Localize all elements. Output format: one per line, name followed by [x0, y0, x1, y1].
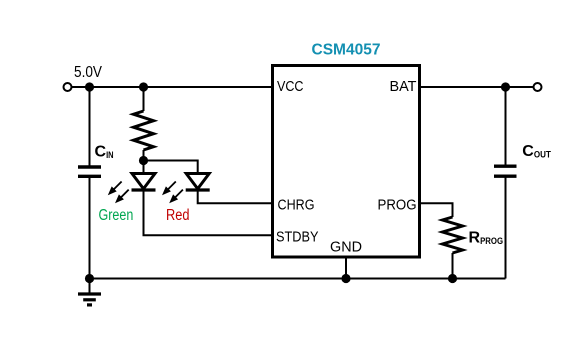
LED D1 green [108, 161, 156, 204]
IC U1 CSM4057 [273, 66, 420, 258]
wire PROG to R_PROG [421, 203, 453, 217]
resistor R1 [134, 87, 154, 161]
junction at GND pin [341, 274, 350, 283]
svg-text:PROG: PROG [378, 197, 417, 214]
wire C_OUT bottom lead to rail corner [505, 177, 507, 279]
output terminal [534, 83, 542, 91]
junction at LED anodes [139, 156, 148, 165]
junction at R1 [139, 82, 148, 91]
wire green LED cathode to STDBY [144, 190, 273, 235]
wire C_OUT top lead [505, 87, 507, 166]
svg-text:CSM4057: CSM4057 [312, 42, 381, 59]
svg-text:Red: Red [166, 207, 190, 224]
wire C_IN top lead [89, 87, 91, 166]
wire GND pin lead [345, 257, 347, 279]
svg-text:CHRG: CHRG [278, 197, 315, 214]
svg-text:BAT: BAT [390, 78, 417, 95]
input terminal [64, 83, 72, 91]
ground [78, 279, 101, 305]
wire top rail [72, 86, 273, 88]
wire BAT to output [421, 86, 534, 88]
svg-text:VCC: VCC [277, 78, 304, 95]
wire to red LED anode [144, 161, 198, 174]
wire red LED cathode to CHRG [198, 190, 272, 203]
svg-text:STDBY: STDBY [276, 229, 319, 246]
svg-text:5.0V: 5.0V [74, 64, 102, 81]
svg-text:GND: GND [330, 239, 362, 256]
junction at ground symbol [85, 274, 94, 283]
junction at C_IN [85, 82, 94, 91]
wire C_IN bottom lead [89, 177, 91, 279]
arrows [168, 182, 176, 190]
capacitor C_IN [78, 167, 101, 176]
LED D2 red [162, 174, 210, 204]
junction at R_PROG bottom [448, 274, 457, 283]
wire bottom ground rail [90, 278, 506, 280]
svg-text:Green: Green [99, 207, 134, 224]
junction at C_OUT [501, 82, 510, 91]
arrows [114, 182, 122, 190]
resistor R_PROG [443, 217, 463, 279]
capacitor C_OUT [494, 166, 517, 176]
